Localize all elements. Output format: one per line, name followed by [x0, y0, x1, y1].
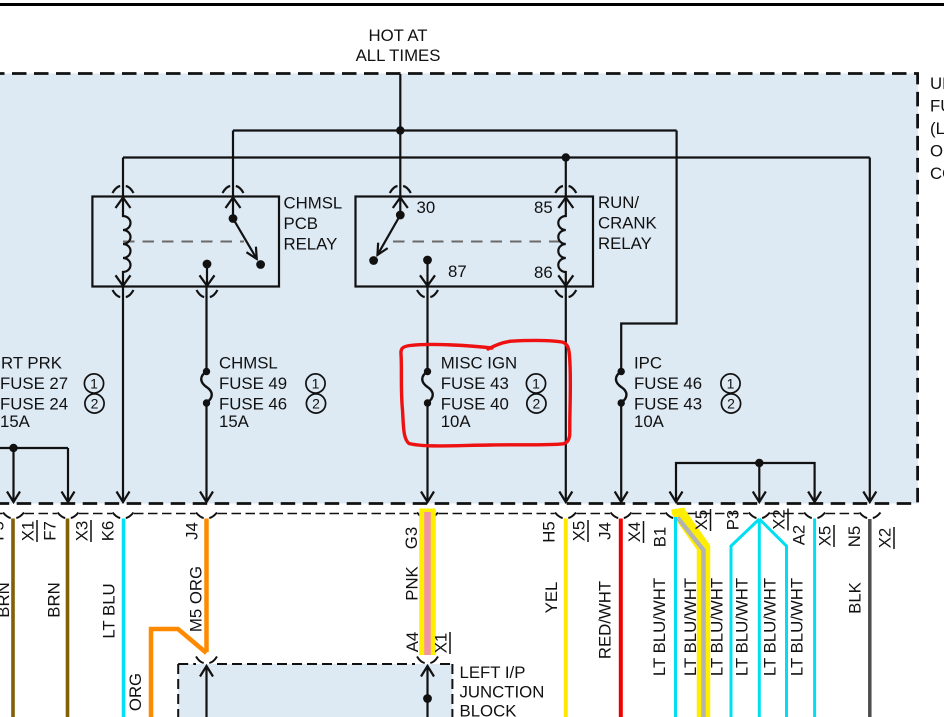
wire: drop to RUN/CRANK relay pin 85 — [565, 158, 567, 197]
relay U2: RUN/CRANK RELAY box — [356, 197, 594, 287]
wire W5: PNK (G3/A4) — [424, 512, 431, 655]
wire: right drop to BLK cavity N5 — [869, 158, 871, 503]
svg-text:X1: X1 — [432, 633, 451, 654]
svg-text:X5: X5 — [570, 521, 589, 542]
connector cavity at junction block (PNK) — [417, 657, 438, 664]
svg-text:85: 85 — [534, 198, 553, 217]
relay U1 switch contact (movable arm) — [229, 214, 265, 269]
pin label X5 (highlighted wire) — [692, 509, 711, 531]
wire color label BRN (W2) — [45, 582, 64, 617]
wire W1: BRN (F5/X1) — [11, 519, 15, 717]
wire color label LT BLU/WHT (W8) — [650, 578, 669, 676]
fuse F1 alternate id circles — [84, 374, 104, 413]
svg-text:FUSE 43: FUSE 43 — [634, 395, 702, 414]
svg-text:MISC IGN: MISC IGN — [441, 354, 517, 373]
svg-text:1: 1 — [532, 376, 540, 392]
pin label G3 — [402, 527, 421, 549]
svg-text:LT BLU/WHT: LT BLU/WHT — [650, 578, 669, 676]
connector cavity below relay U2 pin 87 — [417, 290, 438, 297]
connector cavity above relay U1 coil — [113, 186, 134, 193]
svg-text:PCB: PCB — [284, 214, 319, 233]
svg-text:JUNCTION: JUNCTION — [460, 683, 545, 702]
svg-text:CHMSL: CHMSL — [219, 354, 278, 373]
wire W7: RED/WHT (J4/X4) — [619, 519, 623, 717]
wire: RUN/CRANK pin 86 to cavity H5 — [565, 287, 567, 503]
svg-text:B1: B1 — [651, 527, 670, 548]
connector cavity J4 (ORG) — [196, 513, 217, 519]
svg-text:A4: A4 — [403, 632, 422, 653]
svg-text:2: 2 — [533, 396, 541, 412]
wire W14: BLK (N5/X2) — [868, 519, 872, 717]
fuse block exit arrows — [7, 492, 876, 503]
svg-text:FUSE 24: FUSE 24 — [0, 395, 68, 414]
label: CHMSL PCB RELAY — [284, 194, 343, 254]
svg-text:1: 1 — [90, 376, 98, 392]
svg-text:RT PRK: RT PRK — [1, 354, 62, 373]
pin label P3 — [724, 510, 743, 531]
svg-text:BRN: BRN — [0, 582, 13, 617]
svg-text:J4: J4 — [596, 522, 615, 540]
svg-text:LT BLU/WHT: LT BLU/WHT — [733, 578, 752, 676]
node: feed junction — [396, 126, 404, 134]
svg-text:15A: 15A — [219, 412, 250, 431]
svg-text:K6: K6 — [99, 521, 118, 542]
connector cavity F7 — [58, 513, 79, 519]
svg-text:RELAY: RELAY — [284, 235, 338, 254]
svg-text:N5: N5 — [845, 526, 864, 547]
wire W10: LT BLU/WHT (P3 left branch) — [731, 519, 759, 717]
wire color label LT BLU/WHT (W13) — [788, 578, 807, 676]
wire: drop to cavity P3 — [758, 463, 760, 502]
wire: upper bus (y=130) — [233, 129, 677, 131]
svg-text:CRANK: CRANK — [598, 214, 657, 233]
connector cavity H5 (YEL) — [555, 513, 576, 519]
label: pin 30 — [417, 198, 436, 217]
pin label B1 — [651, 527, 670, 548]
svg-text:BLOCK: BLOCK — [460, 702, 517, 717]
svg-text:X4: X4 — [625, 522, 644, 543]
wire W12: LT BLU/WHT (X2 right branch) — [759, 519, 786, 717]
wire W11: LT BLU/WHT (P3 center) — [758, 519, 761, 717]
pin label X4 — [625, 521, 644, 543]
pin label X1 (junction block) — [432, 632, 451, 654]
relay U2 pin 87 (bottom) — [420, 256, 435, 286]
wire W4a: ORG branch — [151, 629, 207, 717]
svg-text:LT BLU/WHT: LT BLU/WHT — [681, 578, 700, 676]
svg-text:2: 2 — [727, 396, 735, 412]
svg-text:OF ENGINE: OF ENGINE — [930, 142, 944, 161]
label: pin 85 — [534, 198, 553, 217]
wire color label BLK — [846, 582, 865, 614]
label: MISC IGN fuse — [441, 354, 517, 432]
svg-text:1: 1 — [312, 376, 320, 392]
pin label X2 (P3 group) — [770, 509, 789, 531]
relay U2 switch contact (movable arm) — [369, 211, 404, 265]
svg-text:YEL: YEL — [542, 582, 561, 614]
connector cavity below relay U1 coil — [113, 290, 134, 297]
wire: MISC IGN fuse to cavity G3 — [426, 403, 428, 502]
svg-text:FUSE 40: FUSE 40 — [441, 395, 509, 414]
wire color label YEL — [542, 582, 561, 614]
svg-text:FUSE 27: FUSE 27 — [0, 374, 68, 393]
svg-text:LT BLU/WHT: LT BLU/WHT — [708, 578, 727, 676]
pin label X3 — [73, 520, 92, 542]
pin label K6 — [99, 521, 118, 542]
svg-text:LT BLU/WHT: LT BLU/WHT — [788, 578, 807, 676]
svg-text:LEFT I/P: LEFT I/P — [460, 663, 526, 682]
pin label J4 (ORG) — [183, 522, 202, 540]
svg-text:X2: X2 — [876, 528, 895, 549]
connector cavity J4 (RED/WHT) — [611, 513, 632, 519]
wire W6: YEL (H5/X5) — [564, 519, 568, 717]
svg-text:BLK: BLK — [846, 582, 865, 614]
connector cavity P3 — [749, 513, 770, 519]
wire: drop to RUN/CRANK relay pin 30 — [399, 131, 401, 197]
fuse block connector row dashed line — [0, 513, 859, 515]
svg-text:P3: P3 — [724, 510, 743, 531]
svg-text:UNDERHOOD: UNDERHOOD — [930, 74, 944, 93]
svg-text:1: 1 — [727, 376, 735, 392]
svg-text:G3: G3 — [402, 527, 421, 549]
svg-text:LT BLU: LT BLU — [100, 583, 119, 638]
svg-text:IPC: IPC — [634, 354, 662, 373]
svg-text:87: 87 — [448, 262, 467, 281]
wire W4: ORG (J4) — [204, 519, 209, 653]
svg-text:FUSE 46: FUSE 46 — [219, 395, 287, 414]
connector cavity above relay U1 switch — [223, 186, 244, 193]
svg-text:FUSE BLOCK: FUSE BLOCK — [930, 97, 944, 116]
svg-text:30: 30 — [417, 198, 436, 217]
wire: CHMSL fuse to cavity J4 — [205, 403, 207, 502]
red annotation circle around MISC IGN fuse — [401, 340, 570, 446]
connector cavity below relay U2 pin 86 — [555, 290, 576, 297]
wire color label M5 ORG — [187, 566, 206, 632]
relay U1 coil (pin at x=123) — [116, 198, 131, 286]
wire W3: LT BLU (K6) — [122, 519, 126, 717]
svg-text:ALL TIMES: ALL TIMES — [356, 46, 441, 65]
label: pin 86 — [534, 263, 553, 282]
wire color label LT BLU/WHT (W12) — [761, 578, 780, 676]
junction block entry arrow (PNK) — [421, 666, 434, 717]
connector cavity below relay U1 output — [197, 290, 218, 297]
page top border line — [0, 3, 944, 6]
connector cavity at junction block (ORG) — [196, 657, 217, 664]
pin label X5 (A2) — [816, 525, 835, 547]
connector cavity K6 — [113, 513, 134, 519]
wire: lower bus (y=157.5) — [123, 156, 870, 158]
label: LEFT I/P JUNCTION BLOCK — [460, 663, 545, 717]
svg-text:10A: 10A — [441, 412, 472, 431]
pin label X2 (BLK) — [876, 527, 895, 549]
svg-text:2: 2 — [91, 396, 99, 412]
svg-text:LT BLU/WHT: LT BLU/WHT — [761, 578, 780, 676]
highlighter mark over LT BLU/WHT (X5) wire — [678, 509, 704, 717]
wire: battery feed from HOT AT ALL TIMES — [399, 74, 401, 131]
pin label X1 — [19, 520, 38, 542]
svg-text:15A: 15A — [0, 412, 31, 431]
wire: drop to CHMSL relay switch pin — [232, 131, 234, 197]
wire color label LT BLU/WHT (W9) — [681, 578, 700, 676]
fuse F2: CHMSL FUSE 49/46 15A — [201, 368, 212, 407]
svg-text:FUSE 43: FUSE 43 — [441, 374, 509, 393]
wire: drop to cavity F7 — [67, 448, 69, 502]
fuse F2 alternate id circles — [306, 374, 326, 413]
svg-text:H5: H5 — [540, 521, 559, 542]
svg-text:2: 2 — [312, 396, 320, 412]
svg-text:HOT AT: HOT AT — [368, 26, 427, 45]
wire: RUN/CRANK pin 87 to MISC IGN fuse — [426, 287, 428, 372]
wire color label RED/WHT — [596, 581, 615, 659]
wire: drop to CHMSL relay coil pin — [122, 158, 124, 197]
connector cavity F5 — [3, 513, 24, 519]
wire: drop to cavity F5 — [12, 448, 14, 502]
fuse F1: RT PRK FUSE 27/24 15A (symbol off page left) — [0, 354, 68, 432]
relay U2 coil (pins 85/86) — [558, 198, 573, 286]
junction block entry arrow (ORG) — [200, 666, 213, 717]
label: CHMSL fuse — [219, 354, 287, 432]
pin label F5 — [0, 521, 8, 541]
pin label A2 — [790, 525, 809, 546]
pin label J4 (RED/WHT) — [596, 522, 615, 540]
fuse F4 alternate id circles — [721, 374, 741, 413]
pin label H5 — [540, 521, 559, 542]
underhood fuse block box — [0, 74, 918, 504]
label: pin 87 — [448, 262, 467, 281]
wire: RT PRK fuse output bus — [0, 447, 68, 449]
svg-text:86: 86 — [534, 263, 553, 282]
left I/P junction block box — [178, 664, 452, 717]
highlighter mark over PNK wire — [419, 509, 436, 656]
wire color label PNK — [403, 566, 422, 601]
wire: CHMSL relay output to CHMSL fuse — [205, 287, 207, 372]
pin label F7 — [41, 521, 60, 541]
svg-text:BRN: BRN — [45, 582, 64, 617]
fuse F4: IPC FUSE 46/43 10A — [616, 368, 627, 407]
node: junction inside block — [423, 694, 432, 703]
relay U1 output pin (bottom) — [200, 260, 215, 286]
wire color label ORG (branch) — [126, 673, 145, 711]
connector cavity G3 (PNK) — [417, 513, 438, 519]
connector cavity above relay U2 pin 30 — [390, 186, 411, 193]
label: UNDERHOOD FUSE BLOCK (right edge, clipped) — [930, 74, 944, 183]
svg-text:X2: X2 — [770, 509, 789, 530]
svg-text:(LEFT SIDE: (LEFT SIDE — [930, 119, 944, 138]
pin label A4 — [403, 632, 422, 653]
svg-text:RELAY: RELAY — [598, 234, 652, 253]
relay U1: CHMSL PCB RELAY box — [92, 197, 279, 287]
label: IPC fuse — [634, 354, 702, 432]
fuse F3 alternate id circles — [526, 374, 546, 413]
relay U1 internal dashed divider — [123, 241, 244, 243]
connector cavity A2 — [804, 513, 825, 519]
svg-text:X5: X5 — [692, 510, 711, 531]
connector cavity B1 — [666, 513, 687, 519]
svg-text:PNK: PNK — [403, 566, 422, 601]
svg-text:RED/WHT: RED/WHT — [596, 581, 615, 659]
connector cavity above relay U2 pin 85 — [555, 186, 576, 193]
svg-text:RUN/: RUN/ — [598, 193, 639, 212]
fuse F3: MISC IGN FUSE 43/40 10A — [422, 368, 433, 407]
svg-text:M5 ORG: M5 ORG — [187, 566, 206, 632]
pin label X5 (YEL) — [570, 520, 589, 542]
svg-text:A2: A2 — [790, 525, 809, 546]
wire: branch to IPC fuse (step) — [621, 131, 676, 372]
svg-text:X1: X1 — [19, 521, 38, 542]
svg-text:FUSE 49: FUSE 49 — [219, 374, 287, 393]
svg-text:CHMSL: CHMSL — [284, 194, 343, 213]
wire W13: LT BLU/WHT (A2/X5) — [813, 519, 816, 717]
wire W8: LT BLU/WHT (B1) — [674, 517, 677, 717]
node: RT PRK bus junction — [9, 444, 17, 452]
node: junction at RUN/CRANK pin 85 — [562, 153, 570, 161]
wire color label LT BLU/WHT (W11) — [733, 578, 752, 676]
relay U1 switch common pin arrow — [226, 198, 241, 216]
label: HOT AT ALL TIMES — [356, 26, 441, 65]
svg-text:F7: F7 — [41, 521, 60, 541]
wire color label BRN (W1) — [0, 582, 13, 617]
wire: CHMSL relay coil to cavity K6 — [122, 287, 124, 503]
relay U2 internal dashed divider — [393, 241, 560, 243]
svg-text:10A: 10A — [634, 412, 665, 431]
svg-text:COMPARTMENT): COMPARTMENT) — [930, 164, 944, 183]
svg-text:FUSE 46: FUSE 46 — [634, 374, 702, 393]
node: bus junction — [755, 459, 763, 467]
wire color label LT BLU/WHT (W10) — [708, 578, 727, 676]
wire: three-way output bus (y=463) — [676, 463, 815, 502]
wire: IPC fuse to cavity J4 — [620, 403, 622, 502]
svg-text:J4: J4 — [183, 522, 202, 540]
relay U2 pin 30 arrow — [393, 198, 408, 213]
svg-text:X3: X3 — [73, 521, 92, 542]
wire W2: BRN (F7/X3) — [66, 519, 70, 717]
connector cavity N5 — [860, 513, 881, 519]
pin label N5 — [845, 526, 864, 547]
svg-text:X5: X5 — [816, 526, 835, 547]
svg-text:F5: F5 — [0, 521, 8, 541]
svg-text:ORG: ORG — [126, 673, 145, 711]
wire W9: LT BLU/WHT highlighted (X5) — [678, 518, 704, 717]
label: RUN/CRANK RELAY — [598, 193, 657, 253]
wire color label LT BLU — [100, 583, 119, 638]
